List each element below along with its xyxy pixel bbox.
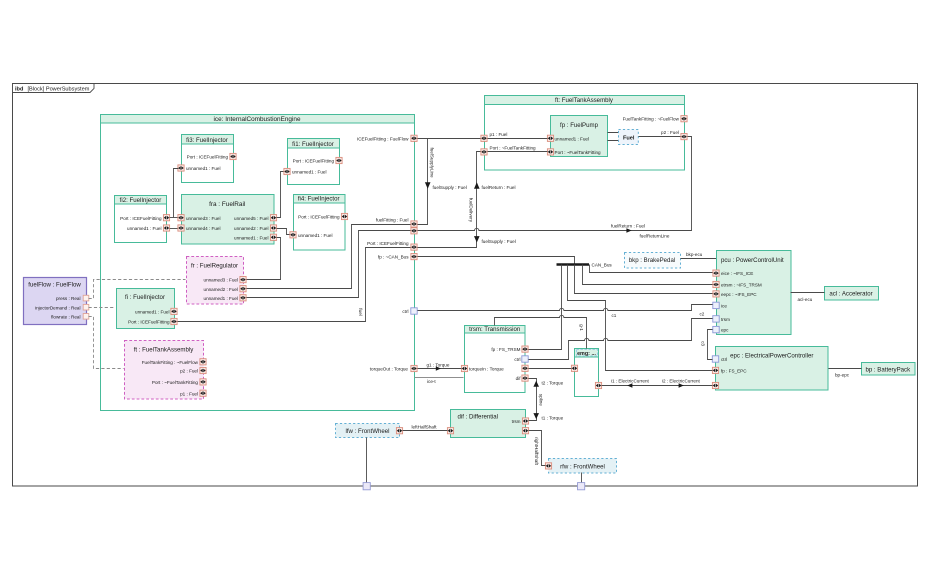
svg-text:trsm: trsm [512,419,521,424]
port fi4.Port [341,213,347,219]
svg-text:fuelSupplyLine: fuelSupplyLine [430,147,435,178]
svg-text:Port : ICEFuelFitting: Port : ICEFuelFitting [298,215,340,220]
svg-text:unnamed1 : Fuel: unnamed1 : Fuel [298,233,332,238]
wire lfw to frame port [366,438,368,483]
block emg [575,349,599,397]
wire c3 pcu.epc to epc.ctrl [708,330,713,360]
port epc.ctrl [712,356,718,362]
svg-text:fr : FuelRegulator: fr : FuelRegulator [191,262,238,269]
svg-text:Port : ~FuelTankFitting: Port : ~FuelTankFitting [152,380,199,385]
wire trsm boundary to emg boundary [495,315,587,348]
wire acl-ecu [791,292,825,294]
block fp : FuelPump [551,116,608,157]
port trsm.torqueIn [461,365,467,371]
wire ft.Port to fp.Port [488,151,548,153]
port ice.fp CAN [411,254,417,260]
svg-text:leftHalfShaft: leftHalfShaft [412,424,438,429]
wire c1 ice.ctrl to pcu.ice [418,305,713,311]
ice edge port labels [357,136,409,371]
port ftref.Port [200,379,206,385]
svg-text:eepc : ~IFS_EPC: eepc : ~IFS_EPC [721,292,757,297]
svg-text:ctrl: ctrl [402,309,408,314]
port pcu.trsm [713,316,719,322]
frame port right [578,483,585,490]
block fi3: FuelInjector [182,135,234,183]
svg-text:unnamed3 : Fuel: unnamed3 : Fuel [204,278,238,283]
block rfw : FrontWheel [549,459,617,474]
block fi4: FuelInjector [294,195,346,251]
port trsm.fp [522,346,528,352]
wire ice-t connector [415,377,464,379]
wire CAN to epc.fp [568,265,713,371]
port emg.left [571,365,577,371]
svg-text:unnamed4 : Fuel: unnamed4 : Fuel [186,226,220,231]
port fra.unnamed4 [178,225,184,231]
svg-text:p2 : Fuel: p2 : Fuel [661,130,679,135]
wire fra.unnamed1 to fr.unnamed3 [247,238,281,280]
svg-text:p1 : Fuel: p1 : Fuel [490,132,508,137]
port fi4.unnamed1 [290,232,296,238]
port fi2.unnamed1 [163,225,169,231]
svg-text:Port : ICEFuelFitting: Port : ICEFuelFitting [367,241,409,246]
block bkp : BrakePedal [625,253,681,269]
svg-text:flowrate : Real: flowrate : Real [51,314,80,319]
svg-text:CAN_Bus: CAN_Bus [592,263,613,268]
svg-text:ICEFuelFitting : FuelFlow: ICEFuelFitting : FuelFlow [357,136,409,141]
wire ICEFuelFitting to p1 [418,138,481,140]
svg-text:dif : Differential: dif : Differential [458,413,499,420]
port fra.unnamed1 [270,234,276,240]
block fi1: FuelInjector [288,139,340,185]
block fuelFlow : FuelFlow [24,278,87,325]
dependency fuelFlow.injectorDemand to fi [89,307,116,309]
svg-text:Port : ICEFuelFitting: Port : ICEFuelFitting [120,216,162,221]
svg-text:rightHalfShaft: rightHalfShaft [534,437,539,466]
port trsm.g2 [522,365,528,371]
item flow Fuel [619,130,639,145]
svg-text:bkp-ecu: bkp-ecu [686,252,703,257]
svg-text:trsm: Transmission: trsm: Transmission [469,326,520,333]
svg-text:trsm: trsm [721,317,730,322]
port fr.unnamed1 [240,295,246,301]
svg-text:spline: spline [538,394,543,406]
wire fra.unnamed2 to fi4 [277,229,290,235]
svg-text:Port : ICEFuelFitting: Port : ICEFuelFitting [128,320,170,325]
wire fra.unnamed5 to fi1 [277,172,284,218]
svg-text:epc : ElectricalPowerControlle: epc : ElectricalPowerController [730,352,813,359]
wire p1 to fp.unnamed1 [488,138,548,140]
svg-text:eice : ~IFS_ICE: eice : ~IFS_ICE [721,271,753,276]
svg-text:t2 : Torque: t2 : Torque [542,380,564,385]
port pcu.epc [713,326,719,332]
svg-text:fp : FS_TRSM: fp : FS_TRSM [491,347,520,352]
svg-text:unnamed1 : Fuel: unnamed1 : Fuel [234,235,268,240]
wire CAN to pcu.etrsm [583,265,713,285]
svg-text:Port : ICEFuelFitting: Port : ICEFuelFitting [293,159,335,164]
svg-text:unnamed5 : Fuel: unnamed5 : Fuel [234,216,268,221]
CAN_Bus bar [557,263,590,266]
svg-text:fp : FuelPump: fp : FuelPump [560,122,599,129]
port fi.unnamed1 [171,308,177,314]
port fi1.Port [336,157,342,163]
arrow fuelReturn up [474,182,480,188]
svg-text:FuelTankFitting : ~FuelFlow: FuelTankFitting : ~FuelFlow [623,117,680,122]
port fp.unnamed1 [547,135,553,141]
svg-text:injectorDemand : Real: injectorDemand : Real [35,305,80,310]
svg-text:emg: ...: emg: ... [577,351,596,357]
port ice.Port [411,244,417,250]
svg-text:ctrl: ctrl [721,357,727,362]
svg-text:dif: dif [516,376,522,381]
svg-text:fuelReturnLine: fuelReturnLine [640,234,670,239]
svg-text:fuelSupply : Fuel: fuelSupply : Fuel [433,185,467,190]
port ice.ICEFuelFitting [411,135,417,141]
svg-text:fi4: FuelInjector: fi4: FuelInjector [298,196,340,203]
wire fi3 to fra.unnamed3 [174,169,179,218]
svg-text:Port : ICEFuelFitting: Port : ICEFuelFitting [187,155,229,160]
svg-text:fuelFlow : FuelFlow: fuelFlow : FuelFlow [28,281,81,288]
svg-text:fuel: fuel [358,308,363,315]
port fra.unnamed3 [178,215,184,221]
port fr.unnamed3 [240,277,246,283]
port fra.unnamed2 [270,225,276,231]
svg-text:unnamed1 : Fuel: unnamed1 : Fuel [292,170,326,175]
block ice: InternalCombustionEngine [101,115,415,411]
svg-text:p2 : Fuel: p2 : Fuel [180,369,198,374]
port pcu.etrsm [713,281,719,287]
block fi : FuelInjector [117,289,175,329]
wire fi2.unnamed1 to fra.unnamed4 [170,228,178,230]
svg-text:unnamed1 : Fuel: unnamed1 : Fuel [555,136,589,141]
dependency fuelFlow.press to fr [89,280,186,299]
wire fuelDelivery ft.Port to ice.Port [418,152,481,248]
wire CAN to pcu.eepc [575,265,713,294]
port dif.left [447,428,453,434]
svg-text:g-1: g-1 [579,324,584,331]
svg-text:i2 : ElectricCurrent: i2 : ElectricCurrent [662,379,701,384]
svg-text:bp : BatteryPack: bp : BatteryPack [865,367,911,374]
port ftref.p1 [200,390,206,396]
port ft.p2 [681,134,687,140]
svg-text:c3: c3 [701,341,706,346]
svg-text:i1 : ElectricCurrent: i1 : ElectricCurrent [611,379,650,384]
port ftref.p2 [200,367,206,373]
svg-text:Port : ~FuelTankFitting: Port : ~FuelTankFitting [490,145,537,150]
frame port left [363,483,370,490]
wire Fuel to p2 [639,136,681,138]
svg-text:acl : Accelerator: acl : Accelerator [829,291,872,298]
svg-text:fi : FuelInjector: fi : FuelInjector [125,294,165,301]
svg-text:ice: ice [721,303,727,308]
frame tab ibd [Block] PowerSubsystem [13,84,95,93]
port ice.torqueOut [411,365,417,371]
svg-text:fi1: FuelInjector: fi1: FuelInjector [292,141,334,148]
wire fp to Fuel item flow [608,133,619,141]
svg-text:c1: c1 [612,313,617,318]
port ice.fuelFitting (double) [411,221,417,227]
port fuelFlow.flowrate [83,314,89,320]
svg-text:fuelReturn : Fuel: fuelReturn : Fuel [482,185,516,190]
svg-text:fi3: FuelInjector: fi3: FuelInjector [186,137,228,144]
port epc.i [712,382,718,388]
port pcu.eepc [713,291,719,297]
block fra : FuelRail [182,195,275,245]
svg-text:etrsm : ~IFS_TRSM: etrsm : ~IFS_TRSM [721,283,762,288]
port fp.Port [547,149,553,155]
svg-text:fp : FS_EPC: fp : FS_EPC [721,368,747,373]
block lfw : FrontWheel [336,424,400,438]
svg-text:t1 : Torque: t1 : Torque [542,415,564,420]
svg-text:acl-ecu: acl-ecu [798,297,813,302]
block bp : BatteryPack [862,363,916,376]
svg-text:ft: FuelTankAssembly: ft: FuelTankAssembly [555,97,614,104]
wire rightHalfShaft [529,431,546,466]
svg-text:fra : FuelRail: fra : FuelRail [209,201,245,208]
wire i1 i2 emg to epc [602,385,713,387]
port trsm.dif [522,375,528,381]
block dif : Differential [451,410,526,438]
svg-text:Fuel: Fuel [623,136,635,142]
svg-text:epc: epc [721,328,729,333]
arrow fuelSupply down [425,182,431,188]
port ftref.FuelTankFitting [200,359,206,365]
block ft : FuelTankAssembly (reference) [125,341,204,400]
svg-text:unnamed1 : Fuel: unnamed1 : Fuel [186,166,220,171]
block pcu : PowerControlUnit [717,251,792,335]
svg-text:c2: c2 [700,311,705,316]
svg-text:torqueOut : Torque: torqueOut : Torque [370,367,409,372]
svg-text:press : Real: press : Real [56,296,81,301]
svg-text:ibd: ibd [15,87,24,93]
svg-text:ft : FuelTankAssembly: ft : FuelTankAssembly [134,346,195,353]
wire fr.unnamed2 to ice.fuelFitting [247,225,411,289]
wire fuelSupplyLine branch down to fuelFitting [418,139,428,225]
svg-text:fuelFitting : Fuel: fuelFitting : Fuel [376,218,409,223]
port fr.unnamed2 [240,286,246,292]
wire fuelReturnLine p2 down-left to fuelFitting [418,137,692,231]
wire bp-epc [829,368,862,370]
svg-text:fi2: FuelInjector: fi2: FuelInjector [120,197,162,204]
svg-text:ice-t: ice-t [427,379,436,384]
port ft.p1 [481,135,487,141]
dependency fuelFlow.flowrate to ftref [89,317,124,369]
port ft.FuelTankFitting [681,116,687,122]
port fra.unnamed5 [270,215,276,221]
svg-text:unnamed1 : Fuel: unnamed1 : Fuel [127,226,161,231]
diagram frame [13,84,918,487]
arrow fuelReturn right [626,228,631,233]
port fuelFlow.press [83,295,89,301]
wire spline trsm.dif to dif.trsm [529,379,537,421]
svg-text:ctrl: ctrl [514,357,520,362]
port fi3.Port [230,153,236,159]
wire CAN fp riser [418,257,575,264]
arrow fuelSupply down 2 [474,236,480,242]
svg-text:unnamed1 : Fuel: unnamed1 : Fuel [204,296,238,301]
wire CAN to pcu.eice [590,265,713,273]
block fr : FuelRegulator [187,257,244,305]
svg-text:g1 : Torque: g1 : Torque [427,362,450,367]
wire bkp-ecu [681,258,717,260]
block trsm: Transmission [465,326,526,393]
svg-text:fuelDelivery: fuelDelivery [469,198,474,223]
svg-text:unnamed1 : Fuel: unnamed1 : Fuel [135,310,169,315]
port rfw.left [545,463,551,469]
port fi2.Port [163,215,169,221]
wire g1 torqueOut to torqueIn [418,368,462,370]
svg-text:lfw : FrontWheel: lfw : FrontWheel [345,428,389,435]
svg-text:ice: InternalCombustionEngine: ice: InternalCombustionEngine [213,116,300,123]
block fi2: FuelInjector [115,196,167,243]
port ice.ctrl [411,308,417,314]
port pcu.ice [713,302,719,308]
port epc.fp [712,367,718,373]
svg-text:unnamed2 : Fuel: unnamed2 : Fuel [204,287,238,292]
port lfw.right [396,428,402,434]
block ft: FuelTankAssembly [485,96,685,171]
port dif.trsm [522,418,528,424]
block acl : Accelerator [825,287,879,301]
wire CAN to trsm.fp [529,265,562,350]
port trsm.ctrl [522,356,528,362]
svg-text:rfw : FrontWheel: rfw : FrontWheel [560,463,605,470]
port fi3.unnamed1 [178,165,184,171]
port fuelFlow.injectorDemand [83,304,89,310]
port pcu.eice [713,270,719,276]
wire leftHalfShaft [403,430,448,432]
svg-text:bp-epc: bp-epc [835,372,850,377]
svg-text:Port : ~FuelTankFitting: Port : ~FuelTankFitting [555,150,602,155]
svg-text:fp : ~CAN_Bus: fp : ~CAN_Bus [378,255,409,260]
wire rfw to frame port [581,473,583,483]
port ft.Port [481,149,487,155]
port dif.right [522,428,528,434]
svg-text:unnamed3 : Fuel: unnamed3 : Fuel [186,216,220,221]
svg-text:FuelTankFitting : ~FuelFlow: FuelTankFitting : ~FuelFlow [142,360,199,365]
svg-text:pcu : PowerControlUnit: pcu : PowerControlUnit [721,257,784,264]
wire fi.Port to ice.fuelFitting (fuel) [178,248,411,322]
svg-text:[Block] PowerSubsystem: [Block] PowerSubsystem [28,87,90,93]
wire fi2.Port to fra.unnamed3 [170,217,178,219]
port fi1.unnamed1 [284,168,290,174]
block epc : ElectricalPowerController [716,347,829,391]
svg-text:fuelReturn : Fuel: fuelReturn : Fuel [611,224,645,229]
wire fr.unnamed1 to ice.Port [247,231,411,298]
wire trsm.g2 to emg [529,368,572,370]
wire c2 trsm.ctrl to pcu.trsm [529,319,713,360]
svg-text:bkp : BrakePedal: bkp : BrakePedal [629,257,675,264]
svg-text:torqueIn : Torque: torqueIn : Torque [469,367,504,372]
svg-text:p1 : Fuel: p1 : Fuel [180,391,198,396]
port emg.right [595,382,601,388]
svg-text:fuelSupply : Fuel: fuelSupply : Fuel [482,239,516,244]
port fi.Port [171,318,177,324]
svg-text:unnamed2 : Fuel: unnamed2 : Fuel [234,226,268,231]
